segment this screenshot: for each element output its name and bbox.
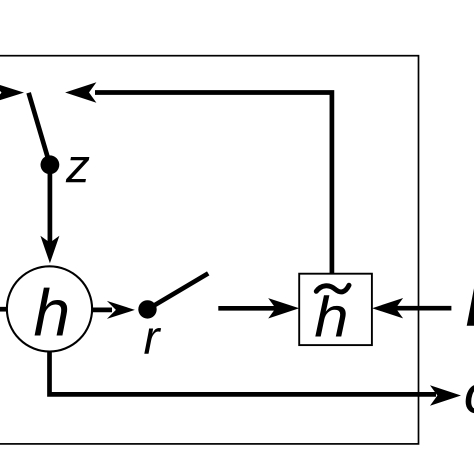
arrowhead into r right	[107, 301, 135, 319]
wire h to output bottom	[50, 351, 437, 394]
label h-tilde	[315, 295, 345, 336]
arrowhead into h-tilde right side	[372, 298, 403, 318]
arrowhead output top-left right	[0, 83, 24, 103]
node h circle	[7, 266, 92, 351]
label h	[35, 288, 68, 336]
label output o (cropped at edge)	[466, 384, 474, 413]
arrowhead feedback left	[65, 82, 96, 102]
arrowhead into h down	[40, 236, 59, 263]
wire z to h	[48, 168, 53, 243]
wire h to r	[92, 308, 112, 313]
wire switch lever z	[29, 93, 50, 165]
outer box (unit boundary, left side cropped)	[0, 56, 419, 444]
arrowhead into h-tilde left side	[268, 298, 299, 318]
label input h (cropped at edge)	[468, 277, 474, 325]
wire feedback from h-tilde top to top-left	[95, 93, 332, 275]
wire switch lever r	[148, 273, 209, 309]
node h-tilde box	[299, 274, 372, 345]
node r dot	[138, 300, 156, 318]
wire r to h-tilde	[218, 306, 278, 311]
label z	[66, 157, 90, 182]
label r	[144, 328, 161, 354]
wire input from right into h-tilde	[394, 306, 451, 311]
arrowhead output right	[430, 385, 461, 405]
node z dot	[41, 155, 60, 174]
wire left stub into h	[0, 307, 8, 312]
label tilde accent	[316, 285, 349, 292]
